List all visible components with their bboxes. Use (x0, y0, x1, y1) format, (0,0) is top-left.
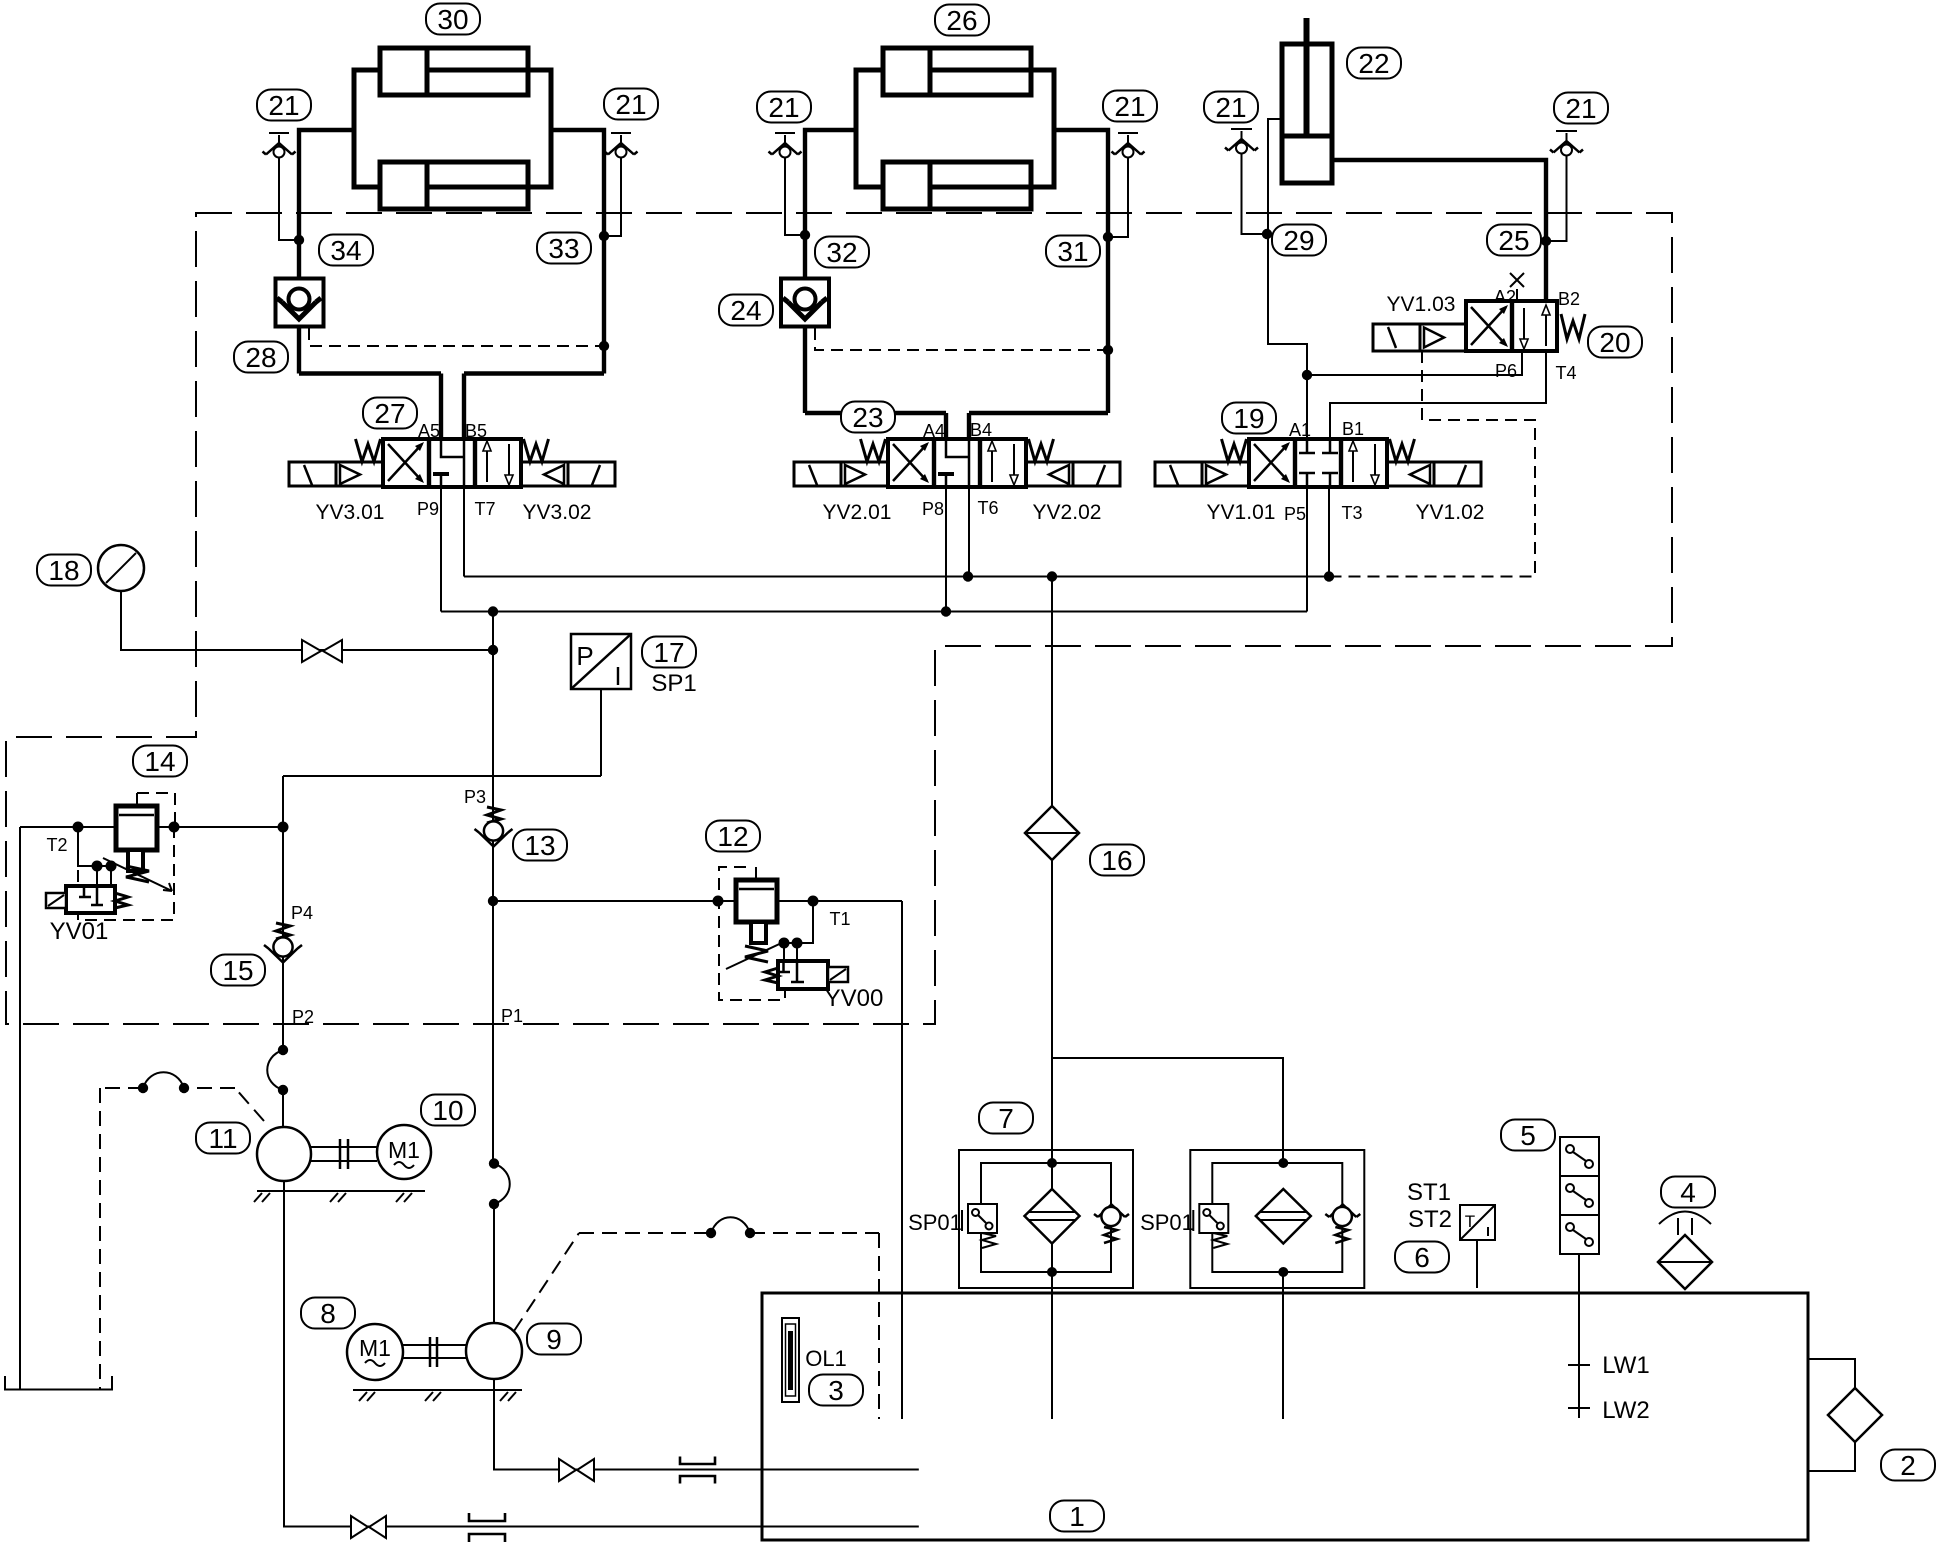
svg-text:OL1: OL1 (805, 1346, 847, 1371)
svg-text:P1: P1 (501, 1006, 523, 1026)
svg-text:SP1: SP1 (651, 670, 696, 697)
svg-text:3: 3 (828, 1375, 844, 1406)
svg-text:25: 25 (1498, 225, 1529, 256)
svg-text:21: 21 (1215, 92, 1246, 123)
svg-text:I: I (614, 661, 621, 691)
svg-text:T6: T6 (977, 498, 998, 518)
svg-text:5: 5 (1520, 1120, 1536, 1151)
svg-text:13: 13 (524, 830, 555, 861)
svg-text:4: 4 (1680, 1177, 1696, 1208)
svg-text:24: 24 (730, 295, 761, 326)
svg-text:P2: P2 (292, 1007, 314, 1027)
svg-text:21: 21 (1565, 93, 1596, 124)
svg-text:1: 1 (1069, 1501, 1085, 1532)
svg-text:29: 29 (1283, 225, 1314, 256)
svg-text:YV2.02: YV2.02 (1033, 501, 1102, 524)
svg-text:P6: P6 (1495, 361, 1517, 381)
svg-text:P9: P9 (417, 499, 439, 519)
svg-text:17: 17 (653, 637, 684, 668)
svg-text:YV01: YV01 (50, 918, 109, 945)
svg-text:A2: A2 (1494, 287, 1516, 307)
svg-text:T7: T7 (474, 499, 495, 519)
svg-text:21: 21 (615, 89, 646, 120)
svg-text:T3: T3 (1341, 503, 1362, 523)
svg-text:B1: B1 (1342, 419, 1364, 439)
svg-text:SP01: SP01 (1140, 1210, 1194, 1235)
svg-text:ST2: ST2 (1408, 1206, 1452, 1233)
svg-text:SP01: SP01 (908, 1210, 962, 1235)
svg-text:18: 18 (48, 555, 79, 586)
svg-text:19: 19 (1233, 403, 1264, 434)
svg-text:T: T (1465, 1212, 1475, 1231)
svg-text:20: 20 (1599, 327, 1630, 358)
svg-text:8: 8 (320, 1298, 336, 1329)
svg-text:33: 33 (548, 233, 579, 264)
svg-text:12: 12 (717, 821, 748, 852)
svg-text:ST1: ST1 (1407, 1179, 1451, 1206)
svg-text:M1: M1 (388, 1137, 420, 1163)
svg-text:2: 2 (1900, 1450, 1916, 1481)
svg-text:32: 32 (826, 237, 857, 268)
svg-text:A5: A5 (418, 421, 440, 441)
svg-text:YV3.01: YV3.01 (316, 501, 385, 524)
svg-text:LW1: LW1 (1602, 1352, 1650, 1379)
svg-text:P: P (576, 641, 593, 671)
svg-text:P4: P4 (291, 903, 313, 923)
svg-text:YV1.02: YV1.02 (1416, 501, 1485, 524)
svg-text:9: 9 (546, 1324, 562, 1355)
svg-text:A1: A1 (1289, 420, 1311, 440)
svg-text:28: 28 (245, 342, 276, 373)
svg-text:A4: A4 (923, 421, 945, 441)
svg-text:LW2: LW2 (1602, 1397, 1650, 1424)
svg-text:T1: T1 (829, 909, 850, 929)
svg-text:T4: T4 (1555, 363, 1576, 383)
svg-text:31: 31 (1057, 236, 1088, 267)
svg-text:YV3.02: YV3.02 (523, 501, 592, 524)
svg-text:22: 22 (1358, 48, 1389, 79)
svg-text:10: 10 (432, 1095, 463, 1126)
svg-text:YV1.03: YV1.03 (1387, 293, 1456, 316)
svg-text:11: 11 (208, 1123, 237, 1154)
svg-text:B2: B2 (1558, 289, 1580, 309)
svg-text:T2: T2 (46, 835, 67, 855)
svg-text:P8: P8 (922, 499, 944, 519)
svg-text:15: 15 (222, 955, 253, 986)
svg-text:30: 30 (437, 4, 468, 35)
svg-text:6: 6 (1414, 1242, 1430, 1273)
svg-text:YV2.01: YV2.01 (823, 501, 892, 524)
svg-text:B5: B5 (465, 421, 487, 441)
svg-text:21: 21 (768, 92, 799, 123)
svg-text:26: 26 (946, 5, 977, 36)
svg-text:21: 21 (1114, 91, 1145, 122)
svg-text:P3: P3 (464, 787, 486, 807)
svg-text:B4: B4 (970, 420, 992, 440)
svg-text:21: 21 (268, 90, 299, 121)
svg-text:27: 27 (374, 398, 405, 429)
svg-text:YV00: YV00 (825, 985, 884, 1012)
svg-text:P5: P5 (1284, 504, 1306, 524)
svg-text:14: 14 (144, 746, 175, 777)
svg-text:34: 34 (330, 235, 361, 266)
svg-text:7: 7 (998, 1103, 1014, 1134)
svg-text:23: 23 (852, 402, 883, 433)
svg-text:M1: M1 (359, 1335, 391, 1361)
svg-text:YV1.01: YV1.01 (1207, 501, 1276, 524)
svg-text:16: 16 (1101, 845, 1132, 876)
